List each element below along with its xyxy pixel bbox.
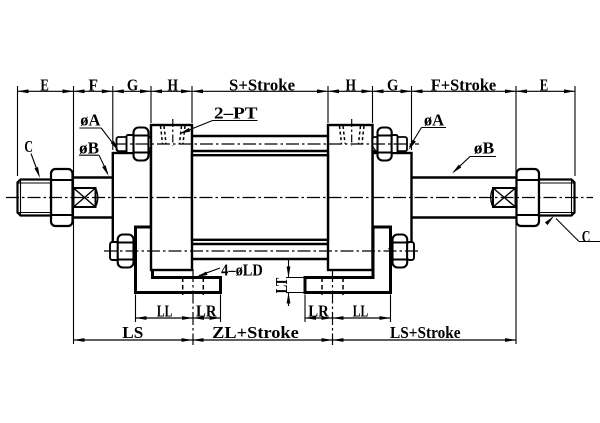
left foot dim arrows [136, 316, 147, 320]
svg-text:LT: LT [272, 277, 291, 293]
svg-text:4–øLD: 4–øLD [221, 261, 263, 280]
svg-text:LL: LL [353, 302, 369, 321]
left gland block [113, 153, 151, 243]
svg-text:G: G [127, 75, 138, 94]
svg-text:F+Stroke: F+Stroke [431, 75, 497, 94]
right gland block [373, 153, 412, 243]
top extension lines [17, 86, 19, 176]
svg-text:øA: øA [424, 111, 445, 130]
right head block [328, 125, 373, 270]
svg-text:C: C [582, 227, 591, 246]
svg-text:S+Stroke: S+Stroke [229, 75, 295, 94]
leader C left [31, 154, 39, 175]
top dimension line [18, 90, 576, 92]
left port centerline [172, 119, 174, 146]
left wrench flats box [74, 188, 96, 207]
svg-text:2–PT: 2–PT [214, 104, 258, 123]
svg-text:LR: LR [196, 302, 217, 321]
left rod thread C [18, 180, 52, 216]
right wrench flats box [493, 188, 516, 207]
right foot hole hidden lines [321, 278, 323, 296]
svg-text:øB: øB [474, 139, 495, 158]
svg-text:F: F [89, 75, 99, 94]
left foot hole hidden lines [182, 278, 184, 296]
bottom dimension line [74, 339, 517, 341]
svg-text:E: E [40, 75, 49, 94]
bottom dim arrows [74, 338, 85, 342]
right foot bracket L-shape [305, 227, 391, 293]
left-top tie rod stub [117, 137, 152, 151]
leader 2-PT [213, 120, 258, 122]
left port threads [161, 126, 163, 144]
right-bottom tie rod stub [407, 242, 414, 260]
right-bottom chamfer mark [389, 246, 393, 250]
svg-text:H: H [346, 75, 357, 94]
left head block [151, 125, 192, 270]
cylinder tube [192, 155, 328, 240]
right rod thread C [539, 180, 575, 216]
right foot dim arrows [305, 316, 316, 320]
top tie rod centerline [114, 143, 419, 145]
left rod nut [51, 169, 73, 226]
svg-text:LS: LS [122, 323, 143, 342]
left-top tie rod washer [127, 135, 134, 153]
right-top tie rod stub [373, 137, 408, 151]
leader oA left [79, 127, 101, 129]
leader oA right [422, 127, 447, 129]
left-bottom tie rod stub [110, 242, 125, 260]
svg-text:ZL+Stroke: ZL+Stroke [212, 323, 299, 342]
svg-text:LR: LR [308, 302, 329, 321]
right port threads [340, 126, 342, 144]
left piston rod [73, 176, 113, 178]
top dimension arrows [18, 89, 29, 93]
left foot bracket L-shape [136, 227, 221, 293]
left-bottom chamfer mark [133, 246, 136, 250]
left-bottom tie rod washer [133, 242, 136, 260]
right-bottom tie rod washer [390, 242, 393, 260]
leader oB right [470, 156, 496, 158]
svg-text:LS+Stroke: LS+Stroke [390, 323, 461, 342]
LT dimension [288, 259, 290, 278]
foot edge extension lines [135, 295, 137, 323]
svg-text:H: H [168, 75, 179, 94]
leader 4-oLD [199, 268, 220, 276]
left-top tie rod nut [134, 128, 149, 161]
left foot hole centerline [192, 269, 194, 345]
bottom tie rod [192, 243, 328, 245]
right-top tie rod washer [392, 135, 398, 153]
left foot dim line [136, 317, 221, 319]
top tie rod [192, 135, 328, 137]
svg-text:C: C [24, 137, 33, 156]
leader oB left [79, 154, 99, 156]
leader C right [579, 241, 600, 243]
right-bottom tie rod nut [393, 235, 408, 268]
right foot dim line [305, 317, 391, 319]
left-top chamfer mark [148, 147, 151, 151]
right rod nut [517, 169, 540, 226]
left-bottom tie rod nut [118, 235, 134, 268]
right foot hole centerline [332, 269, 334, 345]
svg-text:øA: øA [80, 111, 101, 130]
svg-text:E: E [540, 75, 549, 94]
svg-text:G: G [387, 75, 398, 94]
right port centerline [351, 119, 353, 146]
bottom tie rod centerline [104, 250, 419, 252]
main centerline [6, 197, 593, 199]
right-top chamfer mark [373, 147, 376, 151]
right-top tie rod nut [378, 128, 392, 161]
svg-text:LL: LL [157, 302, 173, 321]
right piston rod [412, 176, 517, 178]
